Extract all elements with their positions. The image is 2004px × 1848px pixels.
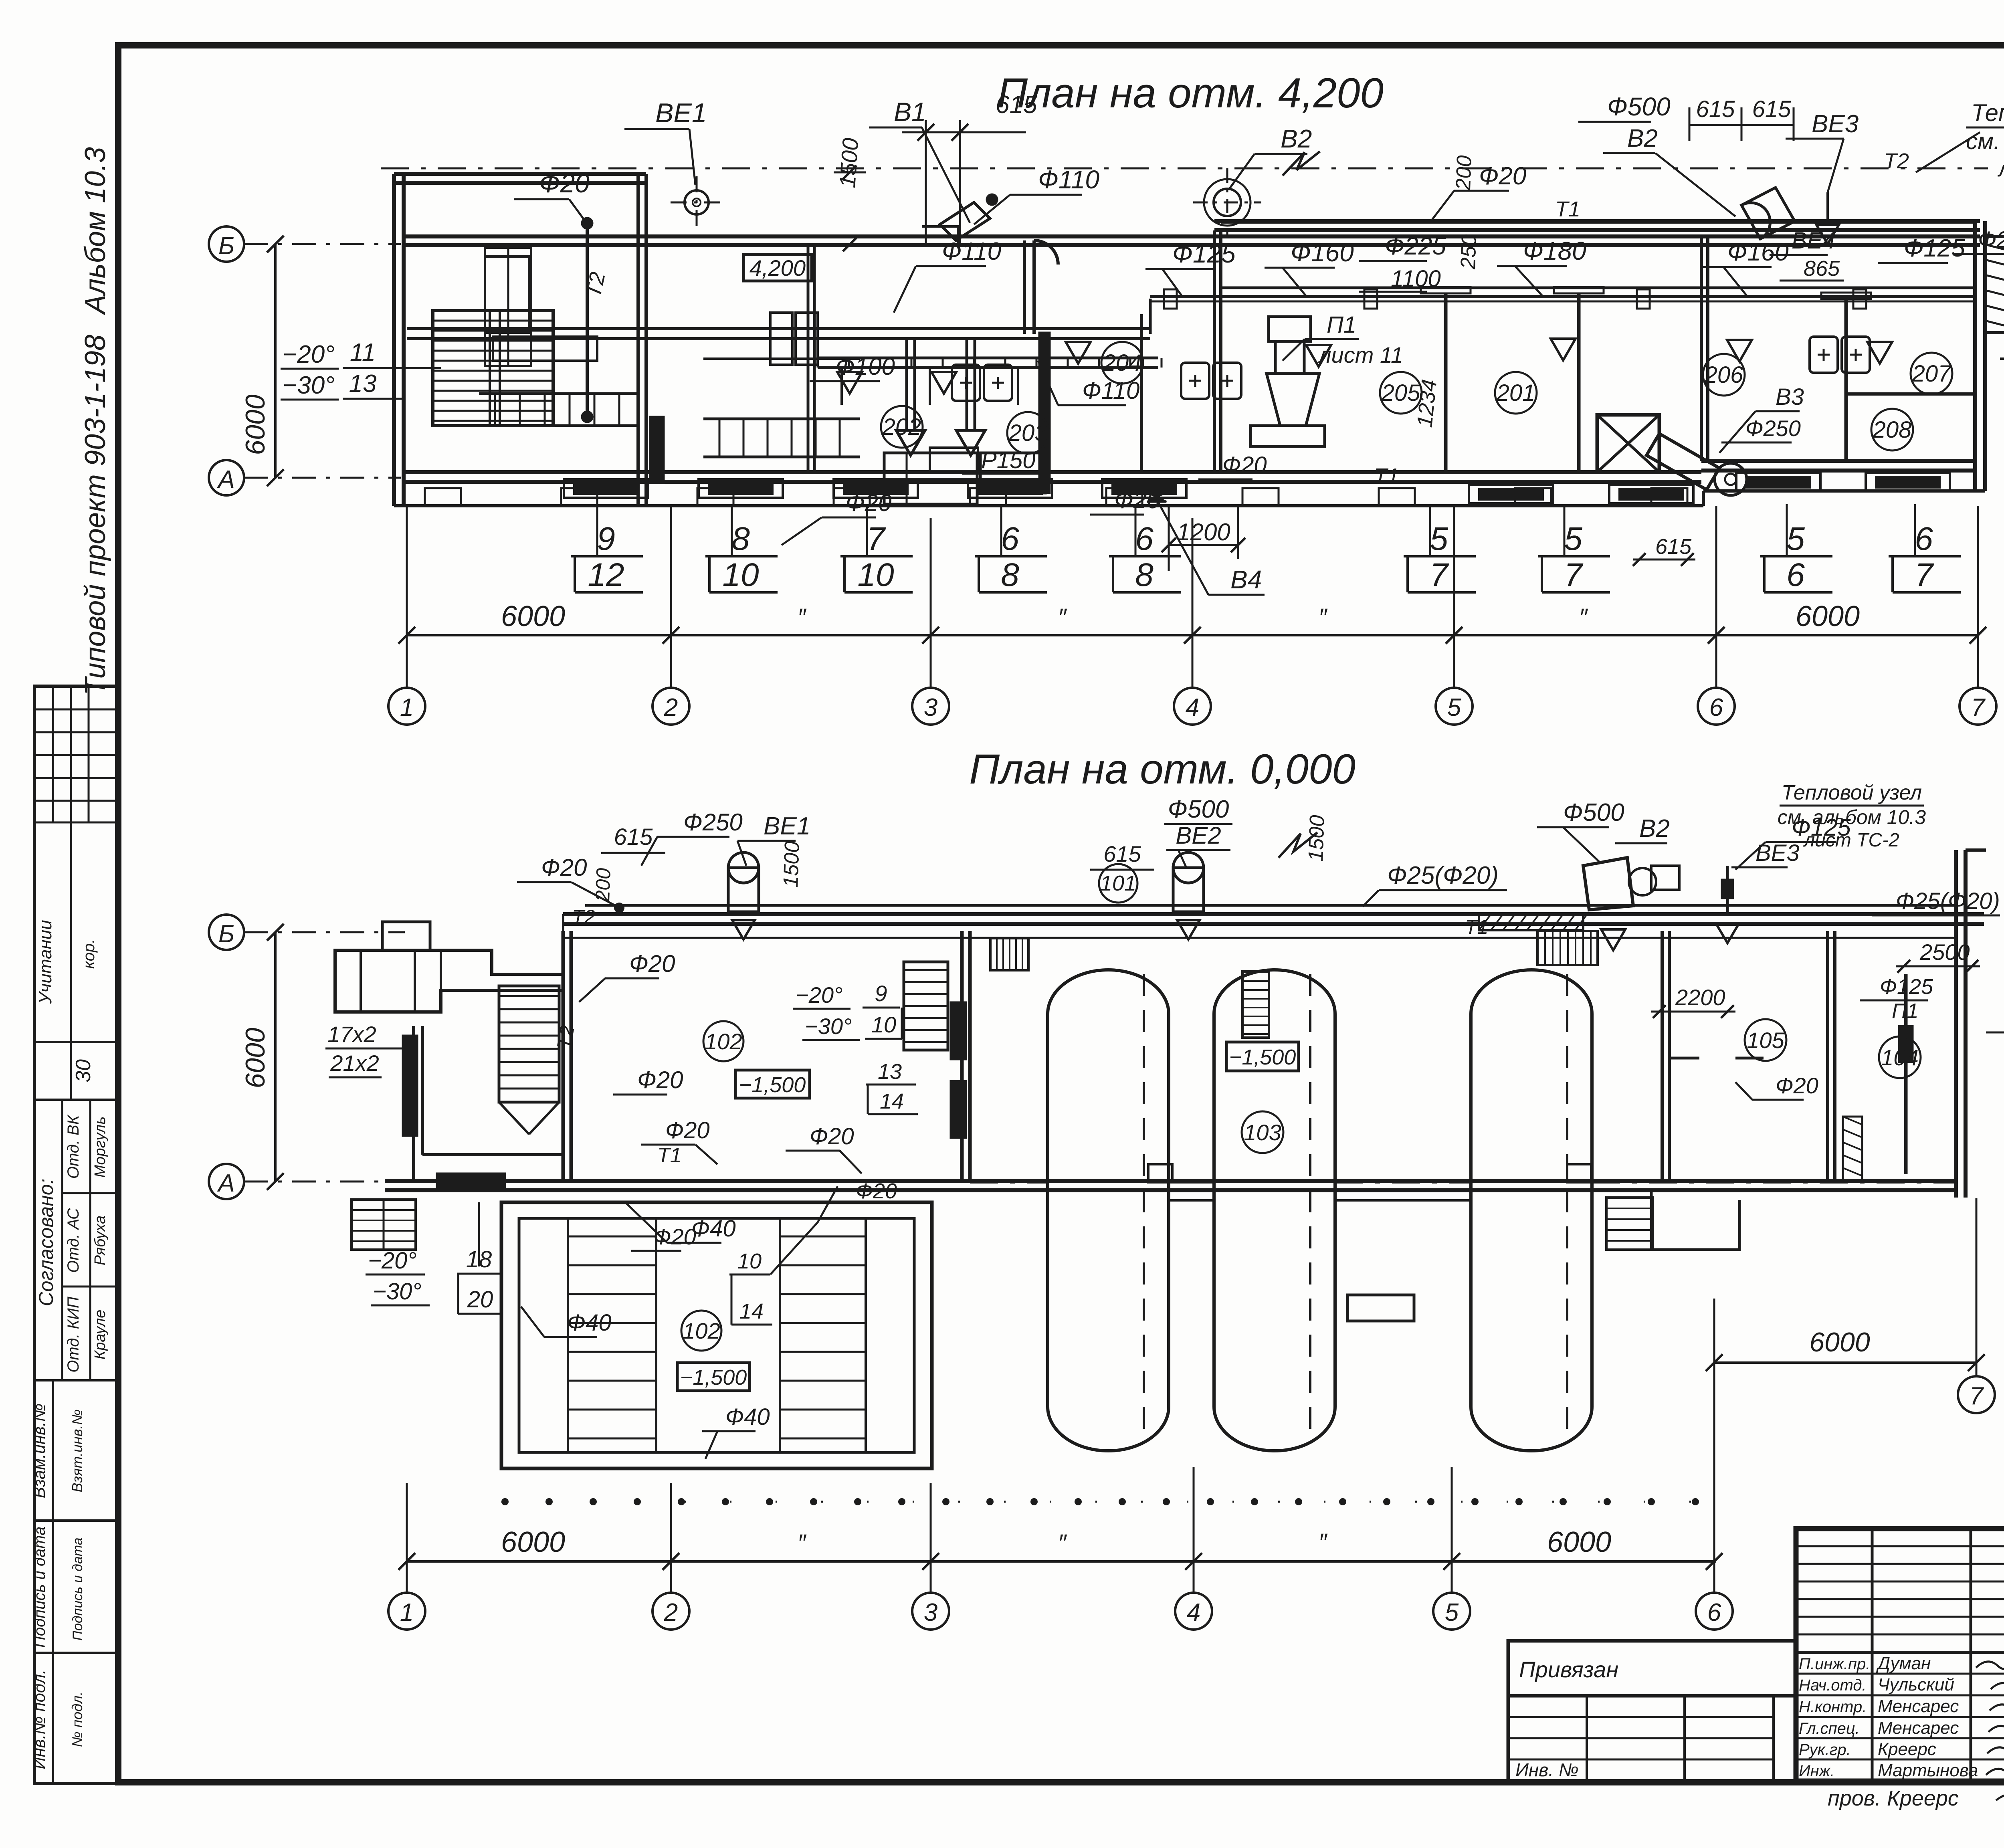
svg-text:кор.: кор.: [80, 939, 98, 969]
svg-text:П1: П1: [1327, 312, 1356, 338]
svg-text:Ф110: Ф110: [942, 238, 1001, 265]
svg-text:−1,500: −1,500: [739, 1073, 806, 1097]
svg-text:№ подл.: № подл.: [69, 1691, 85, 1747]
svg-text:см. альбом 10.3: см. альбом 10.3: [1778, 806, 1926, 828]
svg-text:9: 9: [597, 521, 615, 557]
svg-text:200: 200: [591, 868, 615, 903]
svg-text:А: А: [216, 466, 234, 493]
svg-text:13: 13: [878, 1060, 902, 1084]
svg-text:ВЕ3: ВЕ3: [1756, 840, 1800, 866]
svg-text:615: 615: [996, 91, 1037, 119]
svg-text:−1,500: −1,500: [1229, 1045, 1296, 1069]
svg-text:−20°: −20°: [283, 341, 335, 368]
svg-text:В1: В1: [894, 97, 926, 127]
svg-text:9: 9: [875, 981, 887, 1006]
svg-text:206: 206: [1704, 362, 1744, 388]
svg-text:″: ″: [797, 1529, 806, 1556]
svg-text:Чульский: Чульский: [1878, 1675, 1954, 1695]
svg-text:21x2: 21x2: [330, 1050, 379, 1076]
svg-text:Т2: Т2: [581, 270, 610, 299]
svg-text:План на отм. 0,000: План на отм. 0,000: [969, 746, 1356, 793]
svg-text:Ф250: Ф250: [1745, 416, 1801, 441]
svg-text:Ф20: Ф20: [1776, 1073, 1818, 1098]
svg-text:1100: 1100: [1391, 266, 1441, 292]
svg-text:Ф25(Ф20): Ф25(Ф20): [1896, 888, 2000, 914]
svg-text:Инж.: Инж.: [1799, 1762, 1834, 1780]
svg-text:В2: В2: [1627, 125, 1658, 152]
svg-text:4: 4: [1186, 694, 1199, 721]
svg-text:Т1: Т1: [657, 1144, 682, 1167]
svg-text:Ф40: Ф40: [725, 1404, 770, 1430]
svg-text:20: 20: [467, 1287, 493, 1313]
svg-text:7: 7: [1970, 1382, 1984, 1410]
svg-text:Ф20: Ф20: [1222, 452, 1267, 478]
svg-text:6: 6: [1707, 1599, 1721, 1626]
svg-text:13: 13: [349, 370, 377, 398]
svg-text:102: 102: [705, 1029, 742, 1054]
svg-text:Менсарес: Менсарес: [1878, 1718, 1959, 1738]
svg-text:204: 204: [1103, 350, 1142, 376]
svg-text:Согласовано:: Согласовано:: [35, 1179, 57, 1307]
svg-text:1: 1: [400, 694, 414, 721]
svg-text:″: ″: [1318, 1529, 1327, 1555]
svg-text:Ф20: Ф20: [653, 1224, 696, 1249]
svg-text:615: 615: [1696, 96, 1735, 122]
svg-text:Ф500: Ф500: [1563, 799, 1624, 826]
svg-text:ВЕ3: ВЕ3: [1812, 110, 1859, 138]
svg-text:Инв.№ подл.: Инв.№ подл.: [30, 1670, 48, 1769]
svg-text:лист 11: лист 11: [1317, 342, 1403, 368]
svg-text:Ф125: Ф125: [1880, 975, 1933, 999]
svg-text:14: 14: [880, 1089, 904, 1113]
svg-text:В3: В3: [1776, 384, 1804, 410]
svg-text:615: 615: [1752, 96, 1792, 122]
svg-text:7: 7: [1915, 557, 1934, 593]
svg-text:лист ТС-2: лист ТС-2: [1997, 157, 2004, 181]
svg-text:1500: 1500: [779, 841, 804, 888]
svg-text:Ф20: Ф20: [810, 1123, 854, 1149]
svg-text:Тепловой узел: Тепловой узел: [1971, 99, 2004, 126]
svg-text:101: 101: [1100, 871, 1136, 895]
svg-text:ВЕ2: ВЕ2: [1176, 822, 1221, 849]
svg-text:Ф20: Ф20: [541, 854, 587, 881]
svg-text:2500: 2500: [1919, 939, 1970, 965]
svg-text:Т2: Т2: [572, 906, 596, 928]
svg-text:Ф160: Ф160: [1727, 238, 1789, 266]
svg-text:Ф225: Ф225: [1385, 232, 1446, 260]
svg-text:6: 6: [1135, 521, 1154, 557]
svg-text:104: 104: [1881, 1045, 1918, 1070]
svg-text:4: 4: [1187, 1599, 1200, 1626]
svg-text:В2: В2: [1639, 815, 1670, 842]
svg-text:202: 202: [882, 414, 921, 440]
svg-text:Ф20: Ф20: [629, 950, 675, 977]
svg-text:ВЕ4: ВЕ4: [1792, 228, 1836, 254]
svg-text:103: 103: [1244, 1120, 1281, 1145]
svg-text:Ф160: Ф160: [1291, 238, 1354, 267]
svg-text:102: 102: [683, 1318, 720, 1343]
svg-text:8: 8: [1001, 557, 1019, 593]
svg-text:Инв. №: Инв. №: [1515, 1759, 1579, 1780]
svg-text:6000: 6000: [1809, 1327, 1870, 1357]
svg-text:105: 105: [1747, 1028, 1784, 1053]
svg-text:Ф110: Ф110: [1038, 165, 1099, 194]
svg-text:6: 6: [1709, 694, 1723, 721]
svg-text:Ф20: Ф20: [539, 168, 590, 198]
svg-text:615: 615: [1655, 535, 1692, 559]
svg-text:30: 30: [72, 1059, 95, 1083]
svg-text:3: 3: [924, 694, 937, 721]
svg-text:Ф100: Ф100: [836, 353, 895, 380]
svg-text:2: 2: [664, 694, 678, 721]
svg-text:6000: 6000: [501, 1526, 565, 1558]
svg-text:Отд. ВК: Отд. ВК: [65, 1114, 82, 1179]
svg-text:1: 1: [400, 1599, 414, 1626]
svg-text:Ф250: Ф250: [683, 809, 743, 836]
svg-text:лист ТС-2: лист ТС-2: [1803, 830, 1899, 851]
svg-text:5: 5: [1445, 1599, 1459, 1626]
svg-text:Взят.инв.№: Взят.инв.№: [69, 1409, 85, 1492]
svg-text:−1,500: −1,500: [680, 1365, 747, 1390]
svg-text:П.инж.пр.: П.инж.пр.: [1799, 1655, 1870, 1673]
svg-text:−30°: −30°: [373, 1278, 422, 1305]
svg-text:Ф180: Ф180: [1523, 236, 1586, 265]
svg-text:Типовой проект 903-1-198: Типовой проект 903-1-198: [79, 335, 111, 695]
svg-text:5: 5: [1447, 694, 1461, 721]
svg-text:Тепловой узел: Тепловой узел: [1782, 781, 1922, 804]
svg-text:пров. Креерс: пров. Креерс: [1828, 1786, 1959, 1810]
svg-text:11: 11: [350, 339, 376, 366]
svg-text:Т2: Т2: [1884, 149, 1909, 173]
svg-text:6000: 6000: [240, 1028, 271, 1088]
svg-text:Ф20: Ф20: [665, 1117, 710, 1143]
svg-text:Ф500: Ф500: [1168, 796, 1229, 823]
svg-text:Моргуль: Моргуль: [92, 1117, 109, 1178]
svg-text:П1: П1: [1892, 1000, 1919, 1023]
svg-text:5: 5: [1430, 521, 1448, 557]
svg-text:200: 200: [1452, 155, 1476, 191]
svg-text:6000: 6000: [1796, 600, 1860, 632]
svg-text:Отд. АС: Отд. АС: [65, 1208, 82, 1273]
svg-text:6000: 6000: [240, 394, 271, 455]
svg-text:1500: 1500: [1304, 815, 1329, 862]
svg-text:Ф20: Ф20: [1479, 162, 1526, 190]
svg-text:201: 201: [1496, 380, 1535, 406]
svg-text:В2: В2: [1281, 124, 1312, 153]
svg-text:8: 8: [731, 521, 750, 557]
svg-text:−20°: −20°: [796, 982, 842, 1008]
svg-text:6: 6: [1786, 557, 1805, 593]
svg-text:8: 8: [1135, 557, 1154, 593]
svg-text:План на отм. 4,200: План на отм. 4,200: [997, 70, 1384, 117]
svg-text:203: 203: [1008, 420, 1048, 446]
svg-text:″: ″: [797, 604, 806, 630]
svg-text:2: 2: [664, 1599, 678, 1626]
svg-text:4,200: 4,200: [749, 255, 806, 281]
svg-text:Взам.инв.№: Взам.инв.№: [30, 1404, 48, 1498]
svg-text:3: 3: [924, 1599, 937, 1626]
svg-text:6: 6: [1915, 521, 1933, 557]
svg-text:Т1: Т1: [1465, 916, 1488, 938]
svg-text:Ф40: Ф40: [567, 1310, 612, 1336]
svg-text:Н.контр.: Н.контр.: [1799, 1698, 1867, 1716]
svg-text:″: ″: [1318, 604, 1327, 630]
svg-text:207: 207: [1912, 361, 1952, 387]
svg-text:Крауле: Крауле: [92, 1310, 109, 1360]
svg-text:В4: В4: [1230, 565, 1262, 594]
svg-text:5: 5: [1564, 521, 1582, 557]
svg-text:Подпись и дата: Подпись и дата: [70, 1537, 85, 1640]
svg-text:17x2: 17x2: [327, 1022, 376, 1047]
svg-text:″: ″: [1058, 604, 1067, 630]
svg-text:−20°: −20°: [368, 1248, 417, 1274]
svg-text:1200: 1200: [1177, 519, 1230, 545]
svg-text:Ф20: Ф20: [1978, 227, 2004, 253]
svg-text:14: 14: [739, 1299, 764, 1323]
svg-text:Думан: Думан: [1876, 1654, 1931, 1673]
svg-text:Подпись и дата: Подпись и дата: [31, 1527, 48, 1648]
svg-text:Ф20: Ф20: [856, 1179, 897, 1203]
svg-text:10: 10: [722, 557, 759, 593]
svg-text:Т1: Т1: [1374, 464, 1399, 488]
svg-text:см. альбом 10.3: см. альбом 10.3: [1966, 128, 2004, 154]
svg-text:Ф40: Ф40: [691, 1216, 736, 1242]
svg-text:Ф125: Ф125: [1172, 239, 1236, 268]
svg-text:1500: 1500: [834, 137, 863, 189]
svg-text:Нач.отд.: Нач.отд.: [1799, 1676, 1867, 1694]
svg-text:10: 10: [857, 557, 894, 593]
svg-text:7: 7: [1971, 694, 1986, 721]
svg-text:ВЕ1: ВЕ1: [655, 98, 707, 128]
svg-text:Альбом 10.3: Альбом 10.3: [79, 147, 111, 316]
svg-text:10: 10: [737, 1249, 762, 1273]
svg-text:ВЕ1: ВЕ1: [764, 812, 810, 840]
svg-text:10: 10: [871, 1012, 896, 1037]
svg-text:″: ″: [1579, 604, 1588, 630]
svg-text:250: 250: [1457, 234, 1481, 270]
svg-text:Привязан: Привязан: [1519, 1657, 1618, 1682]
svg-text:Р150: Р150: [981, 447, 1035, 473]
svg-text:208: 208: [1873, 417, 1912, 443]
svg-text:6: 6: [1001, 521, 1019, 557]
svg-text:−30°: −30°: [805, 1014, 852, 1039]
svg-text:6000: 6000: [501, 600, 565, 632]
svg-text:Т1: Т1: [1555, 197, 1580, 221]
svg-text:″: ″: [1058, 1529, 1067, 1556]
svg-text:2200: 2200: [1675, 985, 1725, 1010]
svg-text:Креерс: Креерс: [1878, 1739, 1936, 1759]
svg-text:205: 205: [1381, 380, 1421, 406]
svg-text:Ф25(Ф20): Ф25(Ф20): [1387, 862, 1499, 889]
svg-text:5: 5: [1786, 521, 1805, 557]
svg-text:Рук.гр.: Рук.гр.: [1799, 1741, 1851, 1759]
svg-text:7: 7: [1430, 557, 1449, 593]
svg-text:7: 7: [867, 521, 886, 557]
svg-text:Б: Б: [218, 232, 234, 260]
svg-text:865: 865: [1804, 256, 1840, 281]
svg-text:Мартынова: Мартынова: [1878, 1761, 1978, 1780]
svg-text:12: 12: [588, 557, 624, 593]
svg-text:615: 615: [1103, 841, 1141, 866]
svg-text:7: 7: [1564, 557, 1584, 593]
svg-text:Гл.спец.: Гл.спец.: [1799, 1720, 1860, 1737]
svg-text:6000: 6000: [1547, 1526, 1611, 1558]
svg-text:Б: Б: [218, 920, 234, 948]
svg-text:Рябуха: Рябуха: [92, 1216, 109, 1265]
svg-text:Менсарес: Менсарес: [1878, 1697, 1959, 1716]
svg-text:615: 615: [614, 824, 653, 850]
svg-text:А: А: [216, 1169, 234, 1197]
svg-text:Т2: Т2: [553, 1024, 579, 1051]
svg-text:Ф500: Ф500: [1607, 92, 1671, 121]
svg-text:Учитании: Учитании: [36, 920, 55, 1004]
svg-text:−30°: −30°: [283, 372, 335, 399]
svg-text:Отд. КИП: Отд. КИП: [65, 1296, 82, 1373]
svg-text:Ф125: Ф125: [1904, 234, 1965, 262]
svg-text:Ф20: Ф20: [637, 1066, 683, 1093]
